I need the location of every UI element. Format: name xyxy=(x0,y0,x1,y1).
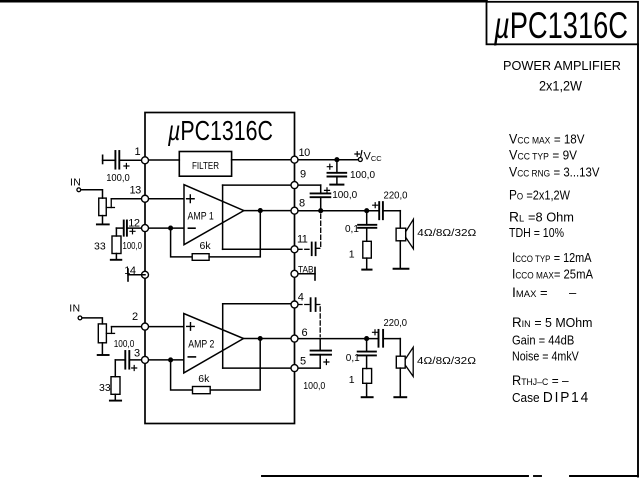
capacitor 100,0 Vcc decoupling xyxy=(327,160,346,185)
pin 11 xyxy=(291,246,298,253)
svg-text:4: 4 xyxy=(298,292,304,304)
pin 12 xyxy=(142,225,149,232)
wire pin13 to amp1 + xyxy=(145,198,184,200)
pin14 terminal group xyxy=(128,269,145,281)
ch2 input network group xyxy=(78,316,145,401)
ground pot2 xyxy=(98,343,109,355)
ch1 input network group xyxy=(77,151,295,224)
svg-text:IN: IN xyxy=(70,176,81,188)
resistor 6k ch2 xyxy=(193,387,211,394)
capacitor 220,0 output ch2 xyxy=(373,330,401,347)
capacitor 100,0 input ch1 xyxy=(103,151,145,169)
vcc rail group xyxy=(295,151,363,162)
wire bridge1 bottom to pin 11 xyxy=(223,248,295,250)
svg-text:POWER AMPLIFIER: POWER AMPLIFIER xyxy=(503,59,621,73)
speaker ch1 xyxy=(396,211,413,269)
ground resistor 33 ch1 xyxy=(111,254,122,260)
wire IN1 to pot xyxy=(81,190,103,198)
svg-text:FILTER: FILTER xyxy=(192,160,219,172)
node feedback2 xyxy=(169,358,173,362)
ch2 output network group xyxy=(295,298,414,397)
title box xyxy=(487,2,639,45)
resistor 1 zobel ch1 xyxy=(363,241,372,258)
wire bridge2 left xyxy=(222,304,224,368)
svg-text:5: 5 xyxy=(300,356,306,368)
svg-text:Gain = 44dB: Gain = 44dB xyxy=(512,333,574,348)
terminal +Vcc xyxy=(355,151,362,162)
node output2 xyxy=(258,337,262,341)
pin 14 xyxy=(142,271,149,278)
capacitor 0,1 zobel ch2 xyxy=(358,339,376,369)
svg-text:9: 9 xyxy=(300,169,306,181)
svg-text:0,1: 0,1 xyxy=(346,353,360,364)
svg-text:Noise = 4mkV: Noise = 4mkV xyxy=(512,348,579,363)
ground Vcc cap xyxy=(330,184,343,186)
IC U1 µPC1316C outline box xyxy=(145,113,295,424)
svg-text:RL =8 Ohm: RL =8 Ohm xyxy=(509,209,574,225)
svg-text:TDH = 10%: TDH = 10% xyxy=(509,225,564,240)
svg-text:100,0: 100,0 xyxy=(350,170,375,181)
input jack IN ch1 xyxy=(77,188,81,192)
svg-text:1: 1 xyxy=(349,249,355,261)
pin 1 xyxy=(142,157,149,164)
resistor 1 zobel ch2 xyxy=(363,369,372,384)
node output1 xyxy=(259,209,263,213)
pin 6 xyxy=(291,335,298,342)
svg-text:6k: 6k xyxy=(200,240,212,252)
svg-text:µPC1316C: µPC1316C xyxy=(167,115,273,146)
node Vcc junction xyxy=(335,158,339,162)
op-amp AMP 2 xyxy=(184,314,244,373)
svg-text:1: 1 xyxy=(135,146,141,158)
svg-text:100,0: 100,0 xyxy=(123,241,143,252)
capacitor dashed pin 11 xyxy=(298,213,321,256)
wire pot1 wiper to pin 13 xyxy=(111,198,145,200)
svg-text:4Ω/8Ω/32Ω: 4Ω/8Ω/32Ω xyxy=(417,355,476,367)
pin 13 xyxy=(142,195,149,202)
svg-text:0,1: 0,1 xyxy=(345,224,359,235)
svg-text:6: 6 xyxy=(302,327,308,339)
vcc cap group xyxy=(327,160,346,185)
svg-text:100,0: 100,0 xyxy=(106,173,130,184)
wire TAB terminal xyxy=(295,268,316,281)
wire feedback2 down xyxy=(171,360,193,390)
ground resistor 33 ch2 xyxy=(110,394,121,400)
pin12 network group xyxy=(111,221,145,260)
capacitor dashed pin 4 xyxy=(298,298,320,336)
node zobel1 xyxy=(365,209,369,213)
svg-text:Case DIP14: Case DIP14 xyxy=(512,389,590,406)
wire amp1 output to pin 8 xyxy=(244,210,295,212)
frame right border xyxy=(637,44,639,476)
svg-text:4Ω/8Ω/32Ω: 4Ω/8Ω/32Ω xyxy=(417,227,476,239)
wire 6k to output2 xyxy=(210,339,260,391)
wire pin3 to amp2 - xyxy=(145,359,184,361)
svg-text:11: 11 xyxy=(297,234,308,246)
op-amp AMP 1 xyxy=(184,185,244,245)
amp1 wires group xyxy=(145,185,244,245)
capacitor 100,0 pin 5 bootstrap xyxy=(295,339,332,369)
pin 3 xyxy=(142,356,149,363)
wire bridge2 bottom to pin 5 xyxy=(223,367,295,369)
pin 2 xyxy=(142,323,149,330)
svg-text:33: 33 xyxy=(94,240,106,252)
ground speaker ch2 xyxy=(394,396,406,398)
wire pin2 to amp2 + xyxy=(145,326,184,328)
svg-text:220,0: 220,0 xyxy=(384,318,408,329)
svg-text:14: 14 xyxy=(124,265,136,277)
wire 6k to output1 xyxy=(209,211,260,257)
amp2 feedback group xyxy=(171,304,295,394)
pins group xyxy=(142,156,299,371)
svg-text:6k: 6k xyxy=(198,373,210,385)
potentiometer volume ch1 xyxy=(99,198,115,216)
svg-text:220,0: 220,0 xyxy=(384,191,408,202)
IC outline group xyxy=(145,113,295,424)
svg-text:TAB: TAB xyxy=(298,264,314,274)
capacitor 100,0 at pin 12 xyxy=(116,221,145,236)
wire pin10 to Vcc xyxy=(295,159,359,161)
svg-text:AMP 2: AMP 2 xyxy=(188,339,214,351)
speaker ch2 xyxy=(396,339,413,397)
capacitor 220,0 output ch1 xyxy=(373,202,401,219)
resistor 33 ch2 xyxy=(111,360,120,394)
svg-text:AMP 1: AMP 1 xyxy=(188,211,214,223)
pin 4 xyxy=(291,301,298,308)
svg-text:12: 12 xyxy=(128,218,140,230)
frame bottom border xyxy=(262,475,638,477)
svg-text:10: 10 xyxy=(299,147,311,159)
potentiometer volume ch2 xyxy=(98,324,114,343)
svg-text:2x1,2W: 2x1,2W xyxy=(539,79,582,94)
ground speaker ch1 xyxy=(394,268,409,270)
ground pot1 xyxy=(97,216,109,225)
svg-text:3: 3 xyxy=(134,348,140,360)
resistor 6k ch1 xyxy=(192,254,209,261)
wire feedback1 down xyxy=(171,228,193,257)
frame top border xyxy=(0,0,487,3)
ground zobel ch1 xyxy=(362,258,371,270)
svg-text:µPC1316C: µPC1316C xyxy=(493,5,628,46)
svg-text:13: 13 xyxy=(130,185,142,197)
pin 10 xyxy=(291,156,298,163)
pin 9 xyxy=(291,182,298,189)
pin 5 xyxy=(291,365,298,372)
svg-text:100,0: 100,0 xyxy=(114,339,135,350)
node pin9 cap to pin8 wire xyxy=(319,209,323,213)
wire pot2 wiper to pin 2 xyxy=(112,326,146,328)
wire pin6 output ch2 xyxy=(295,338,379,340)
capacitor 100,0 pin 9 bootstrap xyxy=(295,185,331,211)
input jack IN ch2 xyxy=(78,316,82,320)
svg-text:IN: IN xyxy=(69,303,80,315)
wire pin12 to amp1 - xyxy=(145,227,184,229)
FILTER block xyxy=(179,152,231,177)
svg-text:8: 8 xyxy=(299,198,305,210)
capacitor 100,0 at pin 3 xyxy=(115,351,145,371)
wire bridge1 left xyxy=(222,185,224,249)
capacitor 0,1 zobel ch1 xyxy=(358,211,376,242)
resistor 33 ch1 xyxy=(112,228,121,253)
node feedback1 xyxy=(169,226,173,230)
wire bridge1 top to pin 9 xyxy=(223,184,295,186)
svg-text:100,0: 100,0 xyxy=(303,381,325,392)
wire pin1 to FILTER xyxy=(145,159,179,161)
svg-text:1: 1 xyxy=(349,374,355,386)
wire pin8 output ch1 xyxy=(295,210,380,212)
wire bridge2 top to pin 4 xyxy=(223,303,295,305)
svg-text:33: 33 xyxy=(99,382,111,394)
wire IN2 to pot xyxy=(82,318,103,324)
amp2 wires group xyxy=(145,314,244,373)
ch1 output network group xyxy=(295,202,414,280)
pin TAB xyxy=(291,270,298,277)
pin 8 xyxy=(291,207,298,214)
amp1 feedback group xyxy=(171,185,295,260)
FILTER box group xyxy=(179,152,231,177)
wire amp2 output to pin 6 xyxy=(244,338,295,340)
wire pin 14 terminal xyxy=(128,269,145,281)
wire FILTER to pin10 xyxy=(232,159,295,161)
pin9 cap group xyxy=(295,185,331,212)
ground zobel ch2 xyxy=(362,383,373,397)
node zobel2 xyxy=(365,337,369,341)
svg-text:100,0: 100,0 xyxy=(332,190,357,201)
svg-text:2: 2 xyxy=(132,311,138,323)
